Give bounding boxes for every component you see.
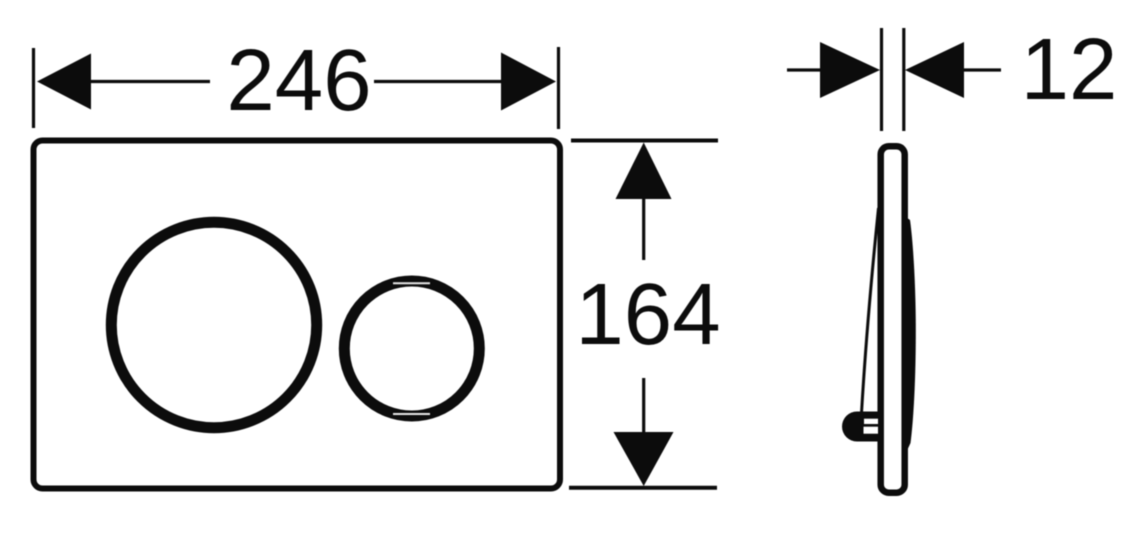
dim 246 line left segment	[88, 80, 210, 83]
dim 246 extension tick left	[32, 48, 35, 128]
svg-text:246: 246	[226, 32, 371, 129]
dim 246 arrowhead left	[37, 54, 91, 110]
dim 246 extension tick right	[557, 47, 560, 129]
dim 12 arrowhead pointing left	[905, 42, 964, 98]
side view foot clamp notch upper	[864, 419, 878, 424]
small ring white slit bottom	[393, 413, 430, 415]
dim 12 line left	[787, 68, 822, 71]
dim 164 tail lower	[642, 378, 645, 432]
dim 12 extension line left	[880, 28, 883, 131]
dim 12 arrowhead pointing right	[820, 42, 880, 98]
dim 164 extension line top	[571, 139, 718, 143]
svg-text:164: 164	[575, 266, 720, 363]
front view plate outline	[34, 141, 561, 489]
dim 12 line right	[962, 68, 1001, 71]
side view foot clamp notch lower	[864, 427, 879, 434]
dim 246 arrowhead right	[501, 53, 556, 111]
side view plate profile	[881, 146, 905, 492]
side view diagonal support line	[862, 208, 879, 413]
dim 164 arrowhead up	[616, 143, 672, 200]
large button ring	[111, 222, 316, 427]
side view foot clamp	[842, 412, 878, 442]
small button ring	[344, 281, 479, 416]
dim 164 extension line bottom	[569, 486, 717, 490]
side view lever behind plate	[903, 215, 916, 455]
small ring white slit top	[393, 282, 430, 284]
dim 164 arrowhead down	[614, 432, 674, 486]
dim 164 tail upper	[642, 199, 645, 260]
dim 12 extension line right	[902, 28, 905, 131]
dim 246 line right segment	[374, 80, 504, 83]
svg-text:12: 12	[1021, 21, 1118, 118]
